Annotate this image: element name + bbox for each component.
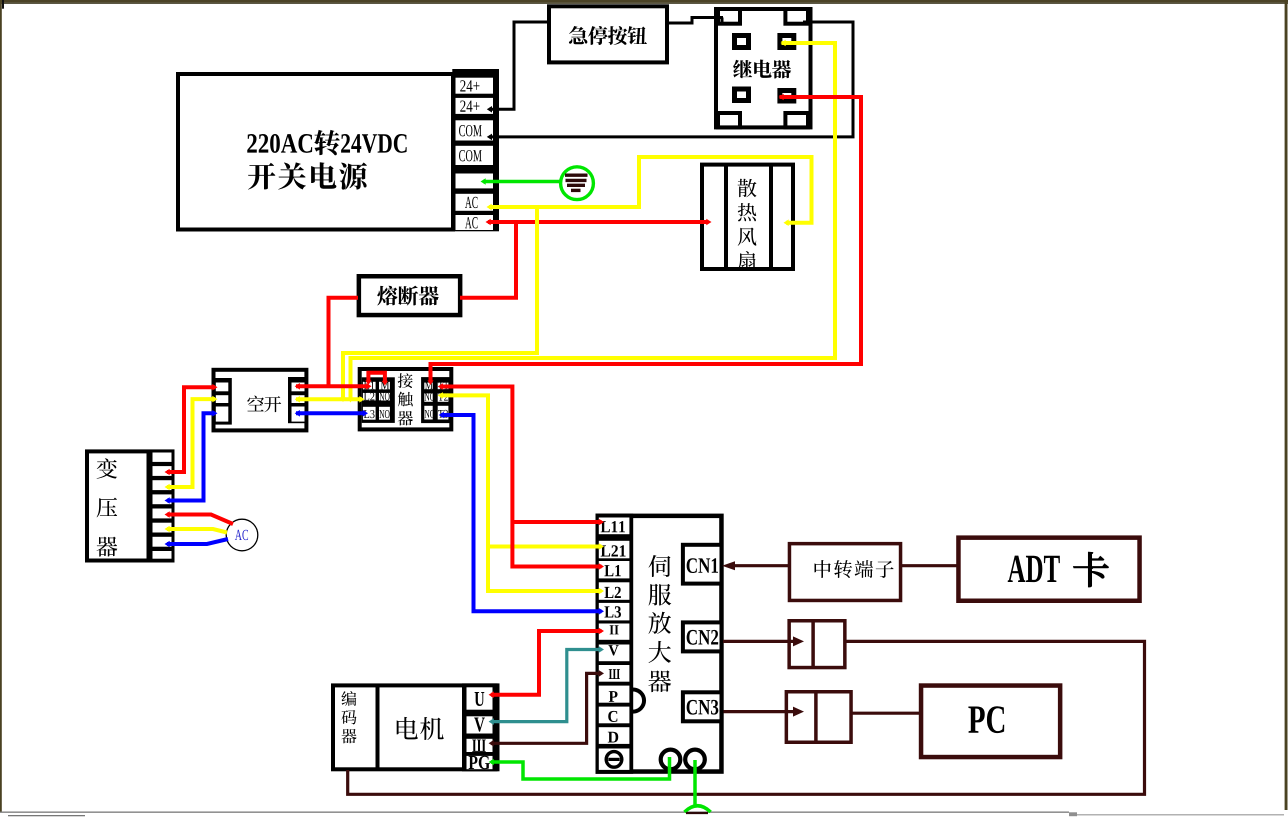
power supply terminal strip (24+,24+,COM,COM,blank,AC,AC) [452,69,499,231]
label: contactor 接触器 vertical [398,373,413,425]
wire green PSU to earth ground [481,178,562,185]
connector CN3 box [683,692,722,721]
servo terminal labels L11 L21 L1 L2 L3 U V W P C D [601,521,626,742]
wire yellow branch down to contactor L2 [340,207,537,402]
wire red branch to fuse [460,222,516,298]
label: emergency stop 急停按钮 [569,26,647,45]
connector CN2 box [683,622,722,651]
label CN1 [687,558,718,573]
PSU title line2 switching power supply 开关电源 [248,162,367,189]
wire black emergency stop to relay [669,18,723,24]
wire black 24+ to emergency stop [487,22,549,113]
label: 中转端子 [815,560,894,578]
page frame left border [0,0,2,812]
label CN2 [687,630,719,645]
wire red motor U to servo U [489,628,604,698]
page frame top border [0,0,1288,3]
wire yellow relay to contactor L2 [347,40,835,403]
motor box with encoder [333,683,498,771]
page frame right border [1285,0,1288,810]
label CN3 [687,700,719,715]
wire blue breaker to contactor L3 [295,410,368,417]
wire blue contactor T3 to servo L3 [439,412,604,615]
PC box [921,686,1060,758]
wire yellow transformer to breaker [165,396,218,491]
motor terminal labels U V W PG [469,692,490,769]
wire yellow overpass at AC junction [535,214,539,230]
connector CN1 box [683,545,722,584]
contactor pin labels L1 L2 L3 M NO NC T1 T2 T3 [364,381,448,418]
CN2 cable connector box [789,620,845,668]
servo amplifier box [596,514,722,774]
label: fuse 熔断器 [377,286,438,306]
ADT card box [958,538,1139,601]
wire dark transfer terminal to ADT card [902,564,957,567]
circuit breaker box 空开 [214,370,307,431]
wire black relay to COM [487,22,853,140]
wire red relay to contactor coil [427,94,861,385]
relay K1 box [716,9,811,127]
wire dark motor W to servo W [489,670,604,747]
wire yellow transformer to AC source [165,526,228,533]
wire dark servo CN2 to connector with arrow [723,636,804,646]
earth ground symbol in green circle [561,167,594,200]
power supply PS1 box 220AC-24VDC [178,74,453,230]
wire dark encoder loop to CN2 connector [348,641,1145,794]
wire red contactor T1 to servo L11 and L1 [438,383,604,570]
wire red fuse to breaker junction [329,298,359,387]
servo bottom terminal circles [661,750,705,770]
wire yellow contactor T2 to servo L21 and L2 [438,392,604,594]
wire red transformer to breaker [165,384,218,475]
label: transformer 变压器 vertical [97,458,118,556]
wire red breaker to contactor L1 [295,383,372,390]
wire teal motor V to servo V [489,646,604,725]
wire red transformer to AC source [165,511,234,524]
wire red AC to fan [486,219,712,226]
wire yellow breaker to contactor L2 [295,396,365,403]
contactor box [360,369,452,429]
transfer terminal block 中转端子 box [789,544,900,601]
wire blue transformer to breaker [165,410,218,504]
cooling fan box [702,164,793,269]
wire yellow AC to fan loop [487,157,812,226]
label: ADT card [1008,552,1109,587]
earth ground arc symbol [685,806,711,813]
terminal labels 24+ 24+ COM COM AC AC [459,80,482,228]
wire green motor PG to servo terminal [489,757,670,779]
label: encoder 编码器 vertical [341,691,356,743]
PSU title line1 220AC converts 24VDC [247,130,406,155]
label: AC [235,530,248,540]
emergency stop button box [549,6,667,62]
wire dark connector to PC [852,712,919,715]
servo ground terminal circled minus [606,752,622,768]
CN3 cable connector box [786,691,851,743]
AC source circle node [226,519,258,551]
wire red contactor jumper [365,373,388,386]
label: PC [968,706,1004,733]
label: cooling fan 散热风扇 vertical [738,179,757,270]
fuse box [359,276,460,315]
page frame bottom line [0,812,1069,813]
servo P-C jumper arc [633,690,644,712]
label: relay 继电器 [733,60,791,79]
wire dark servo CN3 to connector with arrow [724,707,805,717]
wire green servo to earth [693,760,697,807]
wire dark CN1 to transfer terminal with arrow [722,561,789,570]
label: circuit breaker 空开 [247,395,281,412]
label: motor 电机 [397,717,444,740]
wire blue transformer to AC source [165,539,229,547]
label: servo amplifier 伺服放大器 vertical [648,555,671,692]
corner tick mark [2,0,4,9]
transformer box [87,449,175,562]
